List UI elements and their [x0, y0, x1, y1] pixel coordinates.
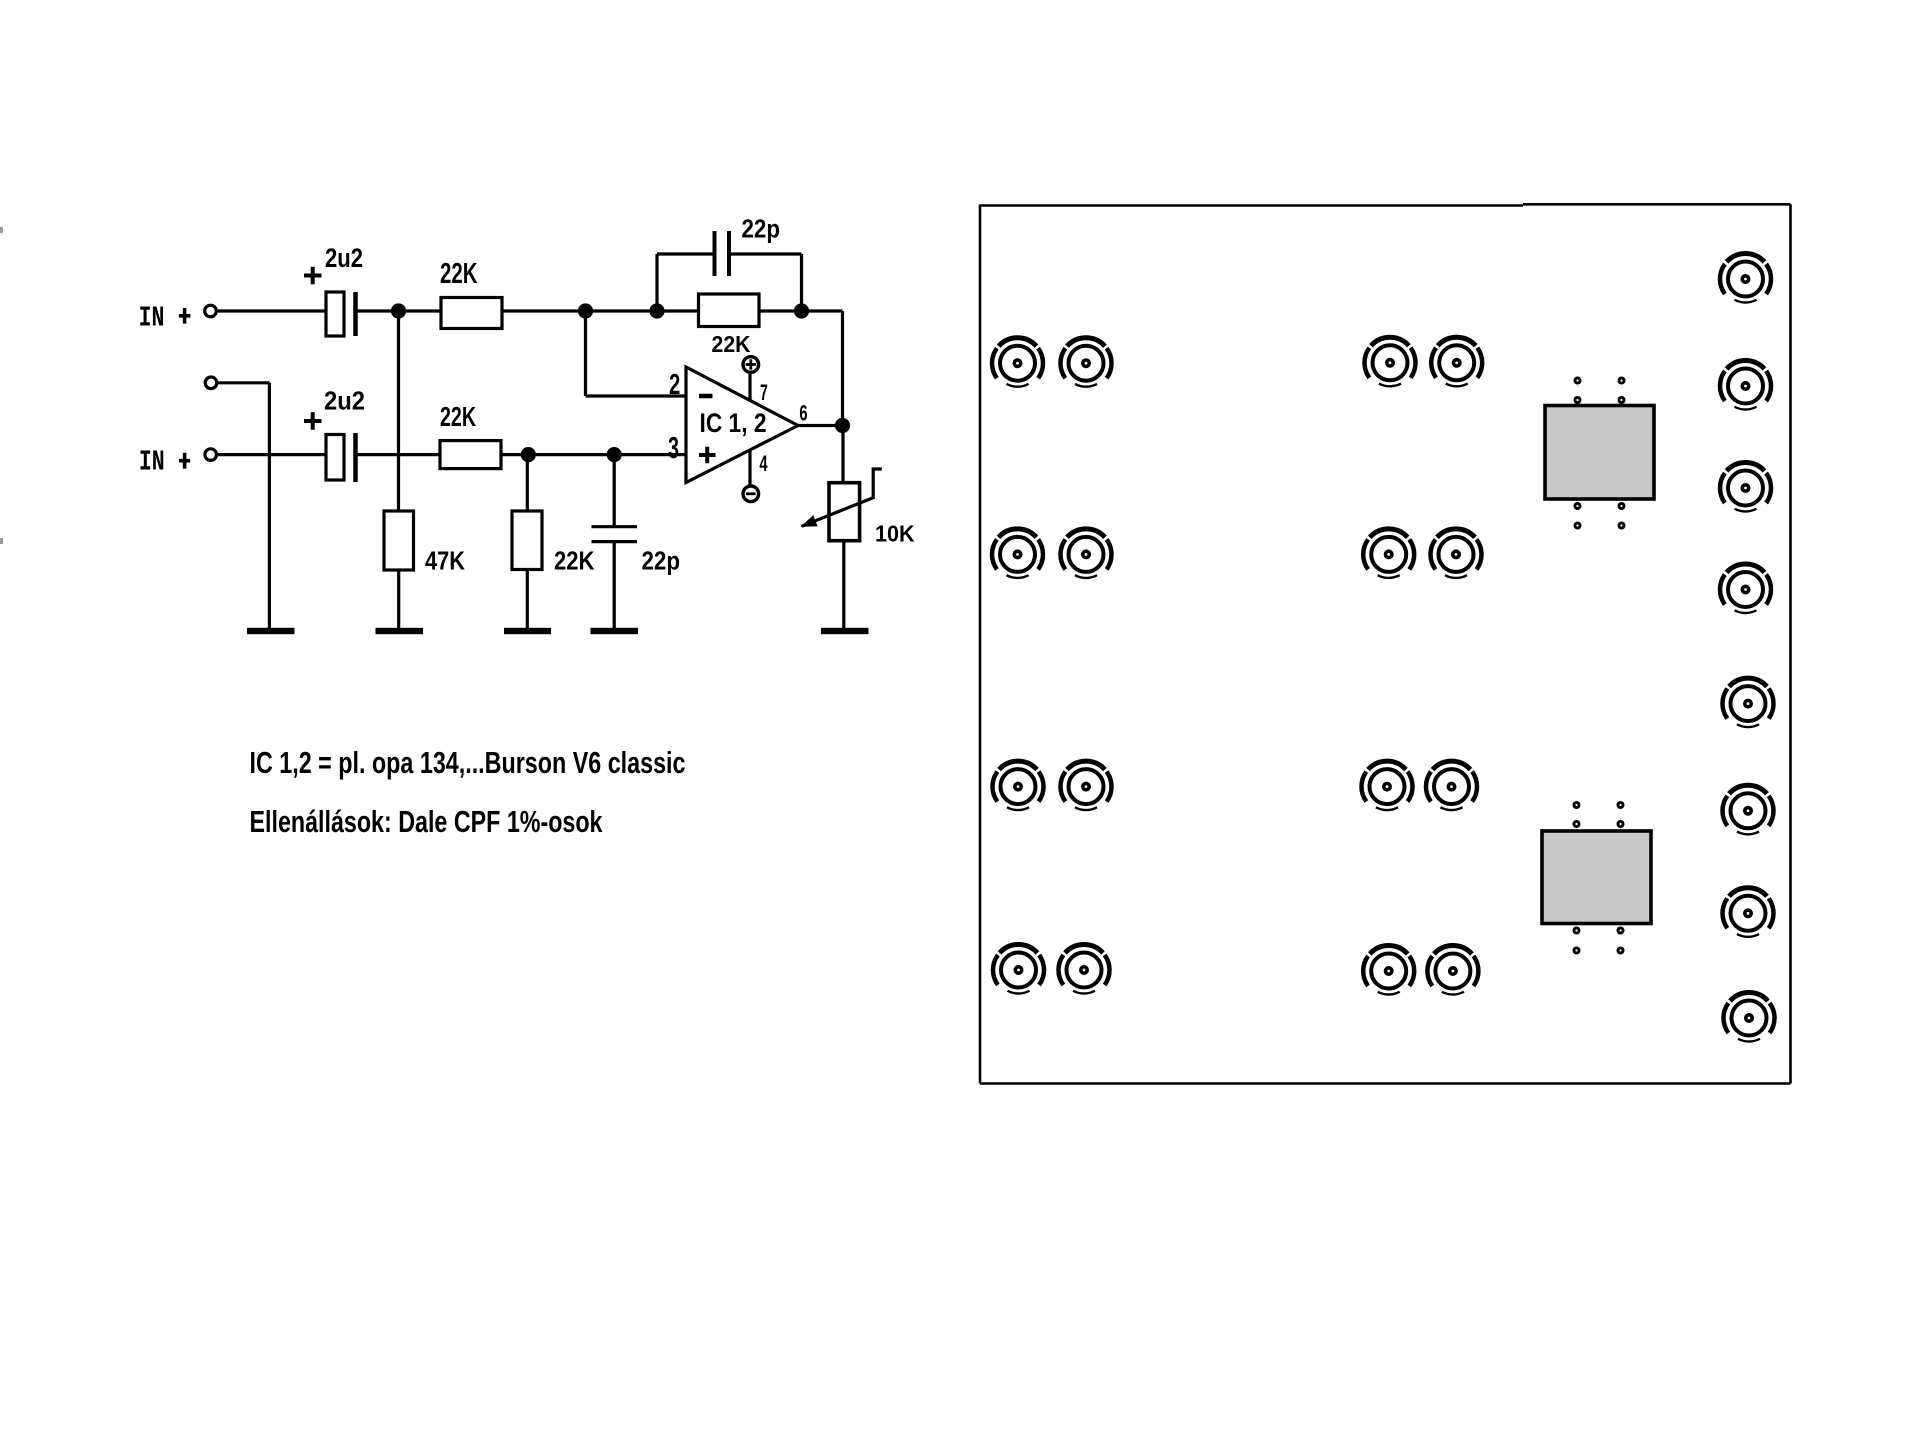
svg-text:Ellenállások: Dale CPF 1%-osok: Ellenállások: Dale CPF 1%-osok: [250, 805, 603, 839]
svg-text:2: 2: [669, 369, 680, 401]
svg-text:22p: 22p: [642, 546, 681, 576]
svg-text:IC 1, 2: IC 1, 2: [700, 408, 767, 438]
svg-text:7: 7: [760, 380, 768, 405]
svg-text:2u2: 2u2: [325, 243, 363, 273]
svg-text:IC 1,2 = pl. opa 134,...Burson: IC 1,2 = pl. opa 134,...Burson V6 classi…: [250, 746, 686, 780]
svg-text:22K: 22K: [440, 401, 476, 432]
svg-text:10K: 10K: [875, 521, 915, 547]
svg-text:22p: 22p: [742, 214, 781, 244]
svg-text:22K: 22K: [554, 546, 595, 576]
svg-text:22K: 22K: [712, 331, 751, 357]
svg-text:4: 4: [759, 451, 768, 476]
svg-text:22K: 22K: [440, 258, 478, 290]
svg-text:6: 6: [799, 401, 807, 426]
svg-text:IN: IN: [139, 302, 165, 335]
svg-text:3: 3: [668, 430, 679, 465]
svg-text:2u2: 2u2: [324, 386, 365, 416]
svg-text:IN: IN: [139, 445, 165, 478]
svg-text:47K: 47K: [425, 546, 465, 576]
